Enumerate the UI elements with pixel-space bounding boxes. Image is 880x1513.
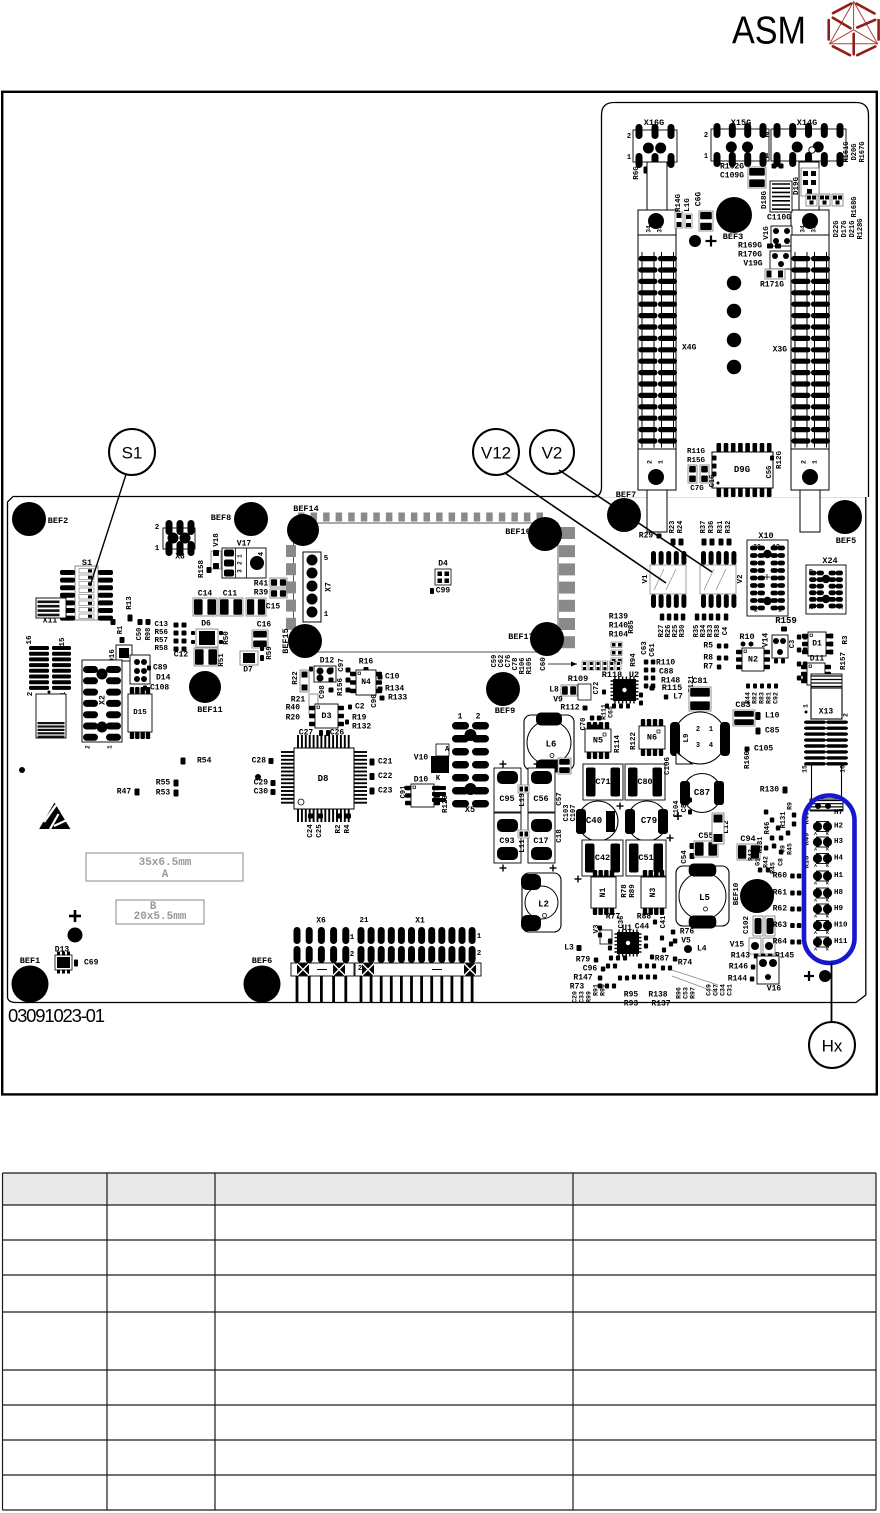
svg-text:C13: C13 bbox=[154, 621, 168, 629]
connector X4G bottom block bbox=[638, 449, 676, 490]
svg-text:A: A bbox=[814, 881, 817, 887]
X13 lower striped block bbox=[810, 799, 843, 811]
chip D14 bbox=[130, 655, 150, 684]
svg-text:C33: C33 bbox=[579, 991, 586, 1003]
chip N1 bbox=[593, 870, 597, 877]
svg-text:D3: D3 bbox=[321, 711, 331, 721]
svg-text:R14G: R14G bbox=[675, 194, 683, 213]
inductor L9 bbox=[674, 712, 726, 764]
svg-text:R158: R158 bbox=[198, 560, 206, 579]
svg-text:R1: R1 bbox=[117, 626, 125, 634]
svg-text:R90: R90 bbox=[600, 984, 607, 996]
svg-text:R137: R137 bbox=[651, 1000, 670, 1009]
svg-text:16: 16 bbox=[840, 765, 847, 773]
svg-text:R11G: R11G bbox=[687, 448, 706, 456]
label C85 bbox=[756, 728, 761, 735]
svg-text:BEF9: BEF9 bbox=[495, 706, 515, 716]
svg-text:ASM: ASM bbox=[732, 10, 806, 53]
svg-text:15: 15 bbox=[59, 637, 67, 647]
svg-text:D15: D15 bbox=[133, 709, 147, 717]
capacitor C80 bbox=[625, 764, 665, 800]
svg-text:3: 3 bbox=[696, 742, 700, 750]
labels R27 R26 R25 R30 R35 R34 R33 R38 C4 + pads bbox=[660, 614, 665, 621]
svg-text:C63: C63 bbox=[641, 641, 649, 655]
svg-text:C60: C60 bbox=[540, 657, 548, 671]
svg-text:C96: C96 bbox=[583, 965, 598, 974]
svg-text:C7G: C7G bbox=[690, 485, 704, 493]
svg-text:A: A bbox=[814, 914, 817, 920]
svg-text:R12G: R12G bbox=[776, 451, 784, 470]
svg-text:L3: L3 bbox=[564, 944, 574, 953]
connector X2 bbox=[82, 660, 122, 742]
svg-text:R59: R59 bbox=[266, 646, 274, 660]
svg-text:R31: R31 bbox=[717, 521, 725, 534]
svg-text:X6: X6 bbox=[316, 917, 326, 926]
svg-text:K: K bbox=[826, 914, 829, 920]
labels R115 L7 R121 bbox=[650, 686, 655, 691]
svg-text:H2: H2 bbox=[834, 823, 844, 831]
svg-text:34: 34 bbox=[800, 225, 807, 233]
svg-text:C16: C16 bbox=[257, 621, 272, 630]
small chips row D22G area bbox=[806, 194, 817, 206]
svg-text:2: 2 bbox=[627, 133, 631, 141]
svg-text:2: 2 bbox=[85, 745, 92, 749]
svg-text:R57: R57 bbox=[154, 637, 168, 645]
svg-text:15: 15 bbox=[802, 765, 809, 773]
svg-text:R130: R130 bbox=[760, 786, 779, 795]
svg-text:V1: V1 bbox=[642, 574, 650, 584]
svg-text:H8: H8 bbox=[834, 889, 844, 897]
svg-text:R41: R41 bbox=[254, 580, 269, 589]
svg-text:R132: R132 bbox=[352, 723, 371, 732]
svg-text:L5: L5 bbox=[699, 893, 710, 903]
svg-text:33: 33 bbox=[657, 225, 664, 233]
svg-text:R55: R55 bbox=[156, 779, 171, 788]
capacitor group C56 bbox=[528, 768, 555, 812]
svg-text:R29: R29 bbox=[639, 532, 654, 541]
svg-text:C15: C15 bbox=[266, 603, 281, 612]
svg-text:A: A bbox=[814, 898, 817, 904]
capacitor C71 bbox=[583, 764, 623, 800]
svg-text:L7: L7 bbox=[673, 693, 683, 702]
callout circle Hx bbox=[809, 1022, 855, 1068]
svg-text:4: 4 bbox=[258, 552, 266, 556]
svg-text:R78: R78 bbox=[621, 884, 629, 898]
svg-text:R20: R20 bbox=[286, 714, 301, 723]
svg-text:D10: D10 bbox=[414, 776, 429, 785]
connector X7 bbox=[303, 552, 321, 622]
cluster pads left of LEDs bbox=[792, 822, 797, 827]
capacitor group C93 bbox=[494, 813, 521, 863]
svg-text:R82: R82 bbox=[752, 692, 759, 704]
svg-text:D8: D8 bbox=[318, 774, 329, 784]
svg-text:R89: R89 bbox=[629, 884, 637, 898]
svg-text:R56: R56 bbox=[154, 629, 168, 637]
svg-text:V2: V2 bbox=[542, 444, 563, 463]
transistor array V2 bbox=[701, 551, 706, 565]
callout line V12 bbox=[505, 473, 666, 583]
svg-text:A: A bbox=[814, 847, 817, 853]
svg-text:H4: H4 bbox=[834, 855, 844, 863]
svg-text:C24: C24 bbox=[307, 824, 315, 838]
capacitor C87 bbox=[683, 774, 722, 813]
svg-text:X4G: X4G bbox=[682, 344, 697, 353]
inductor L5 bbox=[676, 866, 729, 926]
svg-text:V14: V14 bbox=[762, 633, 771, 648]
svg-text:C5G: C5G bbox=[766, 466, 774, 479]
svg-text:R94: R94 bbox=[630, 653, 638, 667]
svg-text:R23: R23 bbox=[669, 521, 677, 534]
X16G stem bbox=[647, 162, 667, 211]
svg-text:1: 1 bbox=[458, 713, 463, 722]
svg-text:D21G: D21G bbox=[849, 221, 857, 238]
scatter pads U1 cluster bbox=[609, 956, 613, 961]
svg-text:C86: C86 bbox=[681, 800, 689, 813]
svg-text:V5: V5 bbox=[681, 937, 691, 946]
svg-text:K: K bbox=[826, 881, 829, 887]
svg-text:G1: G1 bbox=[755, 858, 762, 866]
svg-text:1: 1 bbox=[107, 745, 114, 749]
svg-text:V1G: V1G bbox=[763, 226, 771, 240]
svg-text:L8: L8 bbox=[549, 686, 559, 695]
resistor R54 bbox=[181, 758, 186, 765]
svg-text:C3: C3 bbox=[789, 640, 797, 648]
labels C21 C22 C23 bbox=[370, 759, 375, 766]
svg-text:R96: R96 bbox=[676, 987, 683, 999]
blue highlight rounded rect bbox=[804, 796, 855, 964]
svg-text:R7: R7 bbox=[703, 663, 713, 672]
svg-text:1: 1 bbox=[627, 154, 631, 162]
svg-text:V17: V17 bbox=[237, 540, 252, 549]
svg-text:D20G: D20G bbox=[851, 144, 859, 161]
svg-text:C30: C30 bbox=[254, 788, 269, 797]
svg-text:X24: X24 bbox=[822, 556, 837, 566]
svg-text:C104: C104 bbox=[673, 801, 681, 818]
svg-text:K: K bbox=[826, 947, 829, 953]
scatter pads around U2 bbox=[605, 704, 609, 709]
resistor R171G bbox=[765, 269, 785, 279]
svg-text:2: 2 bbox=[843, 713, 850, 717]
module left pad column bbox=[286, 545, 296, 557]
svg-text:R168G: R168G bbox=[851, 196, 859, 217]
svg-text:C14: C14 bbox=[198, 590, 213, 599]
svg-text:2: 2 bbox=[476, 713, 481, 722]
svg-text:D4: D4 bbox=[438, 560, 448, 569]
svg-text:N6: N6 bbox=[647, 733, 657, 743]
svg-text:R122: R122 bbox=[630, 732, 638, 751]
svg-text:L9: L9 bbox=[683, 733, 691, 743]
svg-text:C92: C92 bbox=[773, 692, 780, 704]
connector X3G bottom block bbox=[791, 449, 829, 490]
svg-text:2: 2 bbox=[155, 524, 160, 532]
svg-text:R147: R147 bbox=[573, 974, 592, 983]
svg-text:C61: C61 bbox=[649, 643, 657, 657]
svg-text:2: 2 bbox=[477, 950, 482, 958]
callout circle S1 bbox=[109, 429, 155, 475]
svg-text:R105: R105 bbox=[526, 658, 534, 675]
svg-text:V16: V16 bbox=[767, 985, 782, 994]
svg-text:R51: R51 bbox=[218, 653, 226, 667]
svg-text:19: 19 bbox=[772, 544, 780, 551]
svg-text:R131: R131 bbox=[780, 812, 788, 829]
svg-text:V10: V10 bbox=[414, 754, 429, 763]
table lines bbox=[3, 1172, 877, 1174]
svg-text:1: 1 bbox=[765, 153, 769, 161]
svg-text:Hx: Hx bbox=[822, 1037, 843, 1056]
svg-text:2: 2 bbox=[801, 460, 808, 464]
figure frame bbox=[2, 92, 877, 1095]
svg-text:C93: C93 bbox=[499, 836, 514, 846]
svg-text:V12: V12 bbox=[481, 444, 511, 463]
parts R14G L1G C6G bbox=[675, 212, 683, 228]
svg-text:1: 1 bbox=[658, 460, 665, 464]
svg-text:R37: R37 bbox=[700, 521, 708, 534]
svg-text:R76: R76 bbox=[680, 928, 695, 937]
wedge outline bbox=[672, 970, 718, 985]
svg-text:D22G: D22G bbox=[833, 221, 841, 238]
capacitor C40 bbox=[578, 801, 618, 841]
svg-text:D1: D1 bbox=[812, 640, 822, 649]
connector X13 bbox=[811, 674, 842, 688]
svg-text:R19: R19 bbox=[352, 714, 367, 723]
svg-text:R5: R5 bbox=[703, 642, 713, 651]
svg-text:4: 4 bbox=[709, 742, 713, 750]
svg-text:R39: R39 bbox=[254, 589, 269, 598]
inductor L6 bbox=[524, 715, 574, 770]
svg-text:R143: R143 bbox=[731, 952, 750, 961]
svg-text:C79: C79 bbox=[641, 816, 657, 826]
connector X3G top block bbox=[791, 210, 829, 235]
svg-text:1: 1 bbox=[812, 460, 819, 464]
svg-text:R63: R63 bbox=[773, 921, 788, 930]
transistor V19G part bbox=[770, 251, 791, 269]
svg-text:35x6.5mm: 35x6.5mm bbox=[139, 857, 192, 869]
svg-text:U1: U1 bbox=[622, 923, 632, 933]
svg-text:C2: C2 bbox=[355, 703, 365, 712]
svg-text:N1: N1 bbox=[599, 888, 608, 898]
connector X3G ladder bbox=[791, 235, 829, 449]
svg-text:D7: D7 bbox=[243, 666, 253, 675]
svg-text:H7: H7 bbox=[834, 809, 843, 817]
svg-text:3: 3 bbox=[237, 569, 244, 573]
svg-text:D18G: D18G bbox=[761, 191, 769, 210]
svg-text:C25: C25 bbox=[316, 824, 324, 838]
svg-text:R8: R8 bbox=[703, 654, 713, 663]
svg-text:K: K bbox=[826, 847, 829, 853]
svg-text:C81: C81 bbox=[692, 676, 707, 686]
svg-text:L13: L13 bbox=[519, 793, 527, 807]
svg-text:K: K bbox=[826, 831, 829, 837]
svg-text:C17: C17 bbox=[533, 836, 548, 846]
svg-text:V18: V18 bbox=[213, 533, 221, 547]
svg-text:1: 1 bbox=[155, 545, 160, 553]
svg-text:R110: R110 bbox=[656, 659, 675, 668]
chip N3 bbox=[643, 870, 647, 877]
svg-text:R114: R114 bbox=[614, 735, 622, 754]
svg-text:R95: R95 bbox=[624, 991, 639, 1000]
svg-text:R4: R4 bbox=[344, 824, 352, 834]
svg-text:R162G: R162G bbox=[720, 163, 744, 172]
svg-text:R53: R53 bbox=[156, 789, 171, 798]
svg-text:R138: R138 bbox=[648, 991, 667, 1000]
svg-text:C26: C26 bbox=[330, 729, 345, 738]
svg-text:R32: R32 bbox=[725, 521, 733, 534]
svg-text:A: A bbox=[814, 930, 817, 936]
fiducial BEF11 bbox=[189, 671, 221, 703]
svg-text:1: 1 bbox=[237, 554, 244, 558]
svg-text:BEF17: BEF17 bbox=[508, 632, 534, 642]
svg-text:V15: V15 bbox=[730, 941, 745, 950]
svg-text:R9: R9 bbox=[787, 802, 794, 810]
svg-text:C107: C107 bbox=[570, 805, 578, 822]
svg-text:C23: C23 bbox=[378, 787, 393, 796]
svg-text:C54: C54 bbox=[681, 850, 689, 864]
svg-text:N3: N3 bbox=[649, 888, 658, 898]
svg-text:R98: R98 bbox=[145, 628, 153, 641]
svg-text:R46: R46 bbox=[764, 822, 772, 835]
svg-text:H10: H10 bbox=[834, 922, 848, 930]
svg-text:R42: R42 bbox=[763, 856, 770, 868]
svg-text:C85: C85 bbox=[765, 727, 780, 736]
fiducial BEF9 bbox=[486, 672, 520, 706]
svg-text:2: 2 bbox=[704, 132, 708, 140]
svg-text:X1: X1 bbox=[415, 917, 425, 926]
svg-text:1: 1 bbox=[709, 726, 713, 734]
diode D7 bbox=[240, 651, 258, 665]
svg-text:L1G: L1G bbox=[684, 198, 692, 212]
svg-text:R22: R22 bbox=[292, 671, 300, 685]
svg-text:5: 5 bbox=[324, 555, 329, 563]
plus mark + pad hole bbox=[69, 915, 81, 918]
chip D8 (QFP) bbox=[281, 751, 294, 753]
svg-text:R2: R2 bbox=[335, 824, 343, 834]
svg-text:X7: X7 bbox=[325, 582, 334, 592]
svg-text:BEF8: BEF8 bbox=[211, 513, 231, 523]
svg-text:1: 1 bbox=[803, 704, 810, 708]
svg-text:R62: R62 bbox=[773, 905, 788, 914]
callout line Hx bbox=[831, 963, 833, 1022]
svg-text:BEF10: BEF10 bbox=[733, 882, 741, 905]
pad + plus near BEF3 bbox=[689, 235, 701, 247]
callout line V2 bbox=[559, 470, 712, 572]
resistor bars near X5 bbox=[432, 786, 446, 790]
module right pad column bbox=[559, 527, 575, 539]
svg-text:C95: C95 bbox=[499, 794, 514, 804]
svg-text:20x5.5mm: 20x5.5mm bbox=[134, 911, 187, 923]
svg-text:R13: R13 bbox=[126, 596, 134, 610]
svg-text:BEF16: BEF16 bbox=[505, 527, 531, 537]
svg-text:C9: C9 bbox=[780, 845, 787, 853]
svg-text:X10: X10 bbox=[758, 531, 773, 541]
svg-text:R3: R3 bbox=[842, 635, 850, 645]
svg-text:R112: R112 bbox=[560, 704, 579, 713]
svg-text:R24: R24 bbox=[677, 521, 685, 534]
svg-text:C11: C11 bbox=[223, 590, 238, 599]
svg-text:C88: C88 bbox=[659, 668, 674, 677]
svg-text:R131: R131 bbox=[757, 837, 765, 854]
small dot left bbox=[19, 767, 25, 773]
svg-text:BEF5: BEF5 bbox=[836, 536, 856, 546]
svg-text:R109: R109 bbox=[568, 674, 588, 684]
svg-text:R87: R87 bbox=[655, 955, 670, 964]
svg-text:C57: C57 bbox=[556, 792, 564, 806]
svg-text:C89: C89 bbox=[153, 664, 168, 673]
svg-text:R157: R157 bbox=[840, 652, 848, 670]
ASM logo hexagon mark bbox=[829, 2, 879, 56]
svg-text:C97: C97 bbox=[338, 658, 346, 672]
connector X4G top block bbox=[638, 210, 676, 235]
svg-text:R167G: R167G bbox=[859, 141, 867, 162]
svg-text:R144: R144 bbox=[728, 975, 747, 984]
svg-text:R146: R146 bbox=[729, 963, 748, 972]
transistor array V1 bbox=[651, 551, 656, 565]
svg-text:R159: R159 bbox=[775, 616, 797, 626]
svg-text:1: 1 bbox=[704, 153, 708, 161]
svg-text:H9: H9 bbox=[834, 905, 844, 913]
svg-text:03091023-01: 03091023-01 bbox=[8, 1005, 105, 1026]
pads near C70 bbox=[590, 716, 595, 721]
svg-text:10: 10 bbox=[808, 569, 815, 576]
svg-text:R64: R64 bbox=[773, 938, 788, 947]
svg-text:C72: C72 bbox=[593, 682, 601, 695]
svg-text:C71: C71 bbox=[595, 777, 610, 787]
svg-text:C41: C41 bbox=[660, 916, 668, 929]
svg-text:C42: C42 bbox=[595, 853, 610, 863]
svg-text:R85: R85 bbox=[628, 620, 636, 634]
svg-text:C34: C34 bbox=[720, 984, 727, 996]
svg-text:C56: C56 bbox=[533, 794, 548, 804]
svg-text:R171G: R171G bbox=[760, 281, 784, 290]
svg-text:R99: R99 bbox=[586, 991, 593, 1003]
svg-text:R36: R36 bbox=[708, 521, 716, 534]
svg-text:R104: R104 bbox=[609, 631, 628, 640]
chip D1 bbox=[802, 634, 808, 638]
svg-text:2: 2 bbox=[765, 132, 769, 140]
svg-text:R15G: R15G bbox=[687, 457, 706, 465]
svg-text:K: K bbox=[826, 898, 829, 904]
svg-text:C91: C91 bbox=[400, 786, 408, 799]
svg-text:R73: R73 bbox=[570, 983, 585, 992]
svg-text:C90: C90 bbox=[371, 694, 379, 708]
svg-text:L4: L4 bbox=[697, 945, 707, 954]
svg-text:D14: D14 bbox=[156, 674, 171, 683]
svg-text:A: A bbox=[162, 869, 169, 881]
svg-text:L2: L2 bbox=[538, 900, 549, 910]
svg-text:C29: C29 bbox=[254, 779, 269, 788]
svg-text:1: 1 bbox=[778, 607, 782, 614]
svg-text:C51: C51 bbox=[638, 853, 653, 863]
svg-text:R10: R10 bbox=[739, 632, 754, 642]
svg-text:C1G: C1G bbox=[709, 475, 717, 488]
svg-text:X5: X5 bbox=[465, 805, 475, 815]
svg-text:R79: R79 bbox=[576, 956, 591, 965]
transistor V16 bbox=[757, 956, 779, 984]
svg-text:C99: C99 bbox=[436, 587, 451, 596]
svg-text:R45: R45 bbox=[787, 843, 794, 855]
svg-text:C6G: C6G bbox=[695, 192, 704, 207]
chip N6 bbox=[641, 719, 645, 726]
svg-text:C110G: C110G bbox=[767, 214, 791, 223]
svg-text:C4: C4 bbox=[722, 627, 730, 635]
capacitor C69 bbox=[74, 960, 78, 967]
svg-text:C47: C47 bbox=[713, 984, 720, 996]
svg-text:R30: R30 bbox=[679, 625, 687, 638]
svg-text:2: 2 bbox=[358, 965, 362, 973]
svg-text:1: 1 bbox=[477, 933, 482, 941]
label L10 bbox=[756, 712, 761, 720]
svg-text:R58: R58 bbox=[154, 645, 168, 653]
svg-text:R61: R61 bbox=[773, 889, 788, 898]
